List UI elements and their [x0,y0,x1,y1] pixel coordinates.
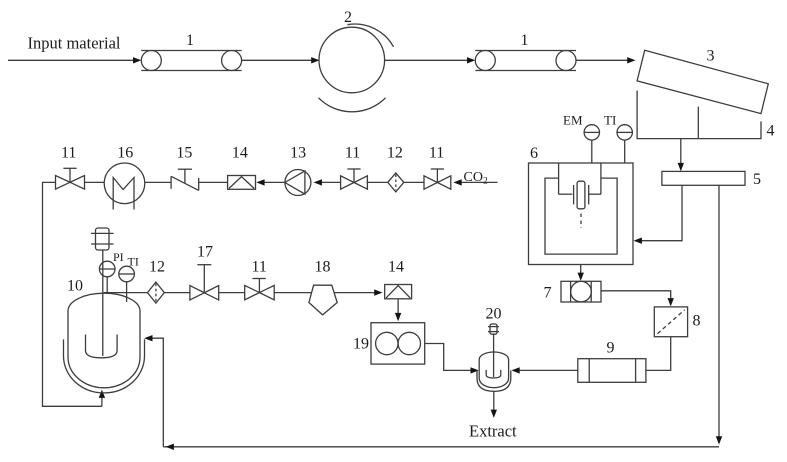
valve 11 (product line) [245,279,275,300]
svg-text:5: 5 [753,171,761,188]
svg-text:19: 19 [353,336,369,353]
svg-text:1: 1 [186,32,194,49]
wire 5 to extractor 6 [642,185,683,240]
separator vessel (20) [479,352,508,388]
pump 19 [371,323,425,364]
pump 13 [285,170,311,196]
svg-text:3: 3 [707,48,715,65]
svg-text:11: 11 [61,144,76,161]
valve 17 [190,265,219,300]
svg-text:4: 4 [767,123,775,140]
svg-text:9: 9 [607,340,615,357]
wire crusher to conveyor [385,59,468,61]
svg-text:2: 2 [344,9,352,26]
svg-text:PI: PI [113,250,124,264]
wire valve 17 to valve 11 [219,292,245,294]
svg-text:EM: EM [563,112,583,127]
wire 9 to separator 20 [519,369,578,371]
svg-text:11: 11 [252,259,267,276]
svg-text:18: 18 [315,259,331,276]
wire conveyor to sieve [576,59,628,61]
separator 5 [662,171,745,185]
wire collector to separator 5 [680,139,682,164]
svg-text:1: 1 [521,32,529,49]
condenser 9 [578,359,646,383]
wire recycle to extractor 10 [152,338,163,447]
svg-text:15: 15 [176,144,192,161]
filter 14 (product line) [385,285,412,299]
wire 18 to filter 14 [335,292,375,294]
rotary valve 7 [561,281,601,302]
dryer 12 (CO2 line) [388,173,404,192]
svg-text:14: 14 [232,144,248,161]
svg-text:11: 11 [429,144,444,161]
vessel 6 inner shell [545,178,617,254]
filter 8 [654,307,687,337]
wire valve to expansion 18 [274,292,311,294]
wire input arrow [8,59,134,61]
crusher 2 [319,24,394,112]
wire 15 to heat exchanger 16 [145,181,171,183]
separator inner cup [486,370,501,378]
CO2 inlet wire [461,181,497,183]
valve 15 [171,169,199,190]
svg-text:13: 13 [290,144,306,161]
wire 19 to separator 20 [425,344,471,371]
collector 4 [637,91,761,139]
svg-text:6: 6 [530,145,538,162]
svg-text:7: 7 [544,285,552,302]
svg-text:20: 20 [486,306,502,323]
motor on extractor 10 [91,228,114,356]
wire 6 to valve 7 [580,265,582,274]
svg-text:Input material: Input material [28,33,121,52]
wire conveyor to crusher [242,59,312,61]
instrument EM [584,125,599,163]
wire dryer to valve 11 [367,181,388,183]
valve 11 (left) [56,168,85,189]
instrument TI (vessel 6) [617,125,632,163]
svg-text:10: 10 [67,278,83,295]
extractor vessel 6 [529,163,634,265]
valve 11 (CO2 inlet) [424,169,451,189]
vessel 6 cartridge [573,185,575,205]
wire filter to valve 15 [199,181,228,183]
instrument TI (vessel 10) [119,266,135,302]
sieve 3 [637,50,768,113]
svg-text:16: 16 [117,144,133,161]
svg-text:8: 8 [693,313,701,330]
wire 10 to dryer 12 [104,292,148,294]
svg-text:11: 11 [345,144,360,161]
conveyor 1 (right) [475,51,576,71]
wire CO2 supply to extractor bottom [43,182,102,406]
wire valve to pump 13 [322,181,341,183]
wire pump to filter 14 [264,181,284,183]
conveyor 1 (left) [141,51,241,71]
wire recycle down right side [718,185,720,438]
dryer 12 (product line) [148,282,165,303]
expansion vessel 18 [309,285,337,315]
wire 7 to filter 8 [601,291,671,300]
extractor 10 impeller [86,335,118,358]
extractor 10 jacket [64,339,145,393]
wire 8 to condenser 9 [646,337,671,371]
wire valve to dryer 12 [404,181,425,183]
wire dryer to valve 17 [164,292,190,294]
vessel 6 basket hangers [558,163,560,194]
valve 11 (before pump) [341,169,368,189]
wire 16 to valve 11 [85,181,105,183]
fitting 20 [488,324,499,377]
separator jacket [477,371,511,392]
svg-text:14: 14 [388,259,404,276]
extractor vessel 10 [68,293,140,388]
svg-text:12: 12 [149,259,165,276]
wire recycle bottom [163,446,719,448]
instrument PI [99,261,115,294]
svg-text:TI: TI [128,255,139,269]
wire separator to extract [493,391,495,411]
svg-text:TI: TI [604,113,616,128]
svg-text:Extract: Extract [469,422,517,441]
heat exchanger 16 [104,163,145,210]
svg-text:12: 12 [387,144,403,161]
wire 14 to pump 19 [397,299,399,314]
svg-text:17: 17 [197,244,213,261]
filter 14 (CO2 line) [228,176,256,190]
